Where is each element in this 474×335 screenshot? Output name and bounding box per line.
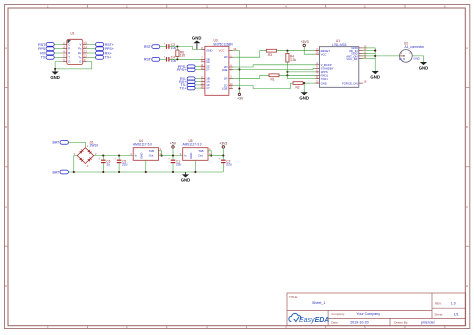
svg-text:TX+: TX+ — [105, 56, 112, 60]
junction C6 top — [102, 155, 104, 157]
svg-text:A: A — [466, 46, 468, 50]
svg-text:AMS1117-5.0: AMS1117-5.0 — [133, 142, 152, 146]
module left pin numbers — [316, 47, 319, 83]
wire U1 left GND — [55, 62, 63, 69]
junction C1/+5V — [172, 155, 174, 157]
svg-text:BAT: BAT — [52, 141, 60, 145]
ground below antenna rail — [370, 71, 380, 79]
svg-text:VCC: VCC — [219, 48, 225, 52]
wire C4 to U3 — [170, 58, 201, 60]
netflag PPS+ — [96, 47, 114, 51]
svg-text:GND: GND — [50, 75, 60, 80]
svg-text:B: B — [466, 125, 468, 129]
netflag TX — [41, 56, 54, 60]
junction RESET/R4 — [286, 50, 288, 52]
wire rail to antenna connector — [375, 55, 399, 57]
ground under U1 — [50, 69, 60, 80]
U3 right pins — [229, 50, 233, 88]
svg-text:2019-10-20: 2019-10-20 — [350, 321, 368, 325]
border row ticks right — [465, 46, 470, 288]
netflag RST — [38, 43, 54, 47]
wire RST2 to C4 — [160, 58, 166, 60]
wire U4 out to U5 — [159, 155, 183, 157]
svg-text:GND: GND — [321, 81, 327, 85]
svg-text:R1: R1 — [271, 78, 275, 82]
svg-text:PPS+: PPS+ — [177, 68, 186, 72]
svg-text:1.0: 1.0 — [451, 302, 456, 306]
svg-text:1R: 1R — [224, 76, 228, 80]
junction C2 — [222, 155, 224, 157]
wires PPS/RX/TX flags to U3 — [196, 67, 201, 89]
svg-text:GND: GND — [181, 178, 191, 183]
regulator U5 — [180, 139, 211, 160]
svg-text:TITLE:: TITLE: — [289, 295, 298, 299]
svg-text:AMS1117-3.3: AMS1117-3.3 — [183, 142, 202, 146]
svg-text:VCC_RF: VCC_RF — [346, 57, 357, 61]
module right pin names — [342, 46, 358, 85]
svg-text:1u: 1u — [106, 163, 110, 167]
netflag RST (row2) — [144, 58, 160, 62]
wire U3 pin1 to R3 — [233, 51, 267, 58]
svg-text:+5V: +5V — [170, 142, 177, 146]
netflag RST+ — [96, 43, 114, 47]
svg-text:22u: 22u — [122, 163, 128, 167]
svg-text:G: G — [79, 60, 81, 64]
svg-text:pmercier: pmercier — [421, 321, 436, 325]
svg-text:+3V3: +3V3 — [219, 142, 227, 146]
junction rail/STANDBY — [238, 68, 240, 70]
module left pin names — [321, 49, 334, 85]
svg-text:Drawn By:: Drawn By: — [394, 321, 408, 325]
U3 right pin names — [222, 55, 228, 90]
svg-text:Date:: Date: — [331, 321, 338, 325]
netflag RX+ — [179, 80, 195, 84]
netflag RST (row1) — [144, 45, 160, 49]
netflag RX- — [180, 77, 195, 81]
border column ticks top — [47, 5, 446, 9]
resistor R1 — [269, 74, 279, 82]
wire TXD1 row — [287, 78, 315, 80]
wire U5 out to +3V3 — [208, 155, 223, 157]
U1 pin numbers — [63, 41, 87, 62]
border column ticks bottom — [47, 325, 446, 329]
U4 TAB tie — [159, 151, 162, 156]
U1 left pins — [63, 44, 67, 61]
U5 TAB tie — [208, 151, 211, 156]
wire V_BCKP row — [233, 65, 316, 67]
resistor R6 — [176, 47, 186, 60]
IC U3 body — [205, 39, 234, 96]
wire R1 to RXD1 — [279, 74, 315, 76]
svg-text:SN75C1168N: SN75C1168N — [213, 42, 233, 46]
company row — [331, 312, 380, 316]
wire STANDBY row — [233, 68, 316, 69]
wire RST1 to C3 — [160, 46, 166, 48]
junction 1PPS — [286, 71, 288, 73]
svg-text:10u: 10u — [171, 59, 177, 63]
svg-text:VCC: VCC — [321, 52, 327, 56]
svg-text:R2: R2 — [296, 85, 300, 89]
ground on rail — [181, 172, 191, 183]
svg-text:GND: GND — [189, 153, 193, 159]
svg-text:Out: Out — [198, 154, 203, 158]
power flag +5V — [170, 142, 177, 156]
svg-text:R3: R3 — [268, 53, 272, 57]
wire bridge output to U4 — [94, 155, 134, 157]
capacitor C1 — [168, 156, 181, 172]
svg-text:EasyEDA: EasyEDA — [299, 317, 329, 324]
svg-text:A: A — [5, 46, 7, 50]
border row ticks left — [5, 46, 9, 288]
svg-text:GND: GND — [419, 65, 429, 70]
svg-text:1Y: 1Y — [206, 86, 210, 90]
netflag BAT- — [52, 170, 68, 174]
netflag RX — [40, 51, 54, 55]
svg-text:B: B — [5, 125, 7, 129]
svg-text:TX+: TX+ — [179, 86, 186, 90]
power flag +3V3 — [219, 142, 227, 156]
junction — [54, 68, 56, 70]
svg-text:GND: GND — [192, 36, 202, 41]
ground flag above U3 GND pin (inverted) — [192, 36, 202, 50]
svg-text:2Y: 2Y — [206, 68, 210, 72]
svg-text:ZW10: ZW10 — [90, 144, 99, 148]
netflag PPS — [38, 47, 54, 51]
svg-text:Company:: Company: — [331, 312, 345, 316]
U1 left pin names — [68, 42, 70, 63]
svg-text:TX: TX — [41, 56, 46, 60]
wire R2 to GND pin — [303, 82, 315, 84]
wires U1 left — [54, 44, 63, 57]
svg-text:+3V: +3V — [237, 96, 244, 100]
module body — [319, 39, 358, 87]
module right pin numbers — [363, 44, 366, 83]
resistor R2 — [293, 82, 303, 90]
junction C3/R6 — [176, 45, 178, 47]
rail junctions — [73, 171, 197, 173]
junction rail/row88 — [238, 87, 240, 89]
netflag BAT+ — [52, 141, 68, 145]
svg-text:3.3k: 3.3k — [290, 58, 296, 62]
svg-text:GND: GND — [140, 153, 144, 159]
svg-text:GND: GND — [413, 56, 419, 60]
svg-text:U1: U1 — [71, 32, 75, 36]
title text — [289, 295, 325, 305]
U3 right pin numbers — [230, 47, 237, 89]
bridge rectifier D1 — [74, 140, 99, 168]
svg-text:TXD1: TXD1 — [321, 77, 329, 81]
svg-text:TAB: TAB — [149, 149, 154, 153]
svg-text:22u: 22u — [226, 163, 232, 167]
U3 left pins — [201, 49, 205, 88]
wire U3 low row to R2 — [233, 83, 293, 88]
sheet cell — [435, 313, 459, 317]
ground at antenna — [419, 62, 429, 70]
date row — [331, 321, 435, 325]
wire down to GND flag — [303, 83, 305, 91]
svg-text:BAT: BAT — [52, 170, 60, 174]
IC U1 body — [67, 32, 83, 65]
wire antenna to ground — [412, 56, 423, 62]
wire BAT+ to bridge — [68, 142, 85, 147]
svg-text:FORCE_ON: FORCE_ON — [342, 81, 358, 85]
wire R3 to RESET — [277, 50, 316, 52]
svg-text:GND: GND — [299, 96, 309, 101]
svg-text:IN_N: IN_N — [399, 57, 405, 61]
capacitor C2 — [219, 156, 232, 172]
svg-text:Sheet_1: Sheet_1 — [312, 301, 325, 305]
U4 GND pin to rail — [145, 160, 147, 172]
svg-text:TAB: TAB — [198, 149, 203, 153]
ground rail — [68, 171, 223, 173]
svg-text:Your Company: Your Company — [356, 312, 380, 316]
power flag +3V — [237, 93, 244, 100]
resistor R3 — [267, 49, 277, 57]
U1 right pins — [83, 44, 87, 61]
svg-text:2R: 2R — [224, 55, 228, 59]
module right pins — [359, 48, 363, 83]
wire 1PPS row — [287, 71, 315, 73]
svg-text:G: G — [68, 60, 70, 64]
rev cell — [435, 302, 456, 306]
capacitor C6 — [99, 156, 111, 172]
wire C3 to GND pin — [170, 47, 201, 50]
netflag TX+ — [179, 86, 195, 90]
netflag TX+ — [96, 56, 112, 60]
module left pins — [315, 51, 319, 83]
svg-text:22u: 22u — [176, 163, 182, 167]
antenna connector U2 — [399, 41, 425, 62]
svg-text:RST: RST — [144, 58, 152, 62]
netflag TX- — [180, 83, 195, 87]
regulator U4 — [130, 139, 161, 160]
svg-text:GND: GND — [206, 48, 212, 52]
svg-text:GND: GND — [370, 74, 380, 79]
capacitor C3 — [164, 43, 177, 51]
netflag PPS- — [178, 65, 195, 69]
svg-text:A1_connector: A1_connector — [405, 45, 426, 49]
svg-text:Out: Out — [149, 154, 154, 158]
EasyEDA logo — [289, 313, 329, 323]
U1 right pin names — [78, 42, 82, 63]
svg-text:2A: 2A — [206, 60, 210, 64]
svg-text:120: 120 — [180, 54, 186, 58]
+3V rail from U3 VCC — [233, 50, 240, 93]
svg-text:L76L-M33: L76L-M33 — [332, 43, 347, 47]
netflag RX+ — [96, 51, 112, 55]
svg-text:Sheet:: Sheet: — [435, 313, 444, 317]
wires module right to rail — [363, 48, 375, 71]
U3 left pin names — [206, 57, 210, 90]
wire bridge left leg — [74, 156, 77, 172]
wire U3 to R1 — [233, 75, 269, 78]
capacitor C4 — [164, 55, 177, 63]
U5 GND pin to rail — [194, 160, 196, 172]
junctions on antenna rail — [374, 50, 376, 52]
svg-text:1DE: 1DE — [222, 87, 228, 91]
netflag PPS+ — [177, 68, 195, 72]
power flag +3V3 at VCC — [301, 40, 316, 54]
svg-text:+3V3: +3V3 — [301, 40, 309, 44]
wire U1 right GND loop — [55, 62, 92, 69]
svg-text:2DE: 2DE — [222, 68, 228, 72]
capacitor C5 — [114, 156, 127, 172]
wires U1 right — [87, 44, 96, 57]
junction GND row — [303, 82, 305, 84]
svg-text:1/1: 1/1 — [454, 313, 459, 317]
U3 left pin numbers — [201, 46, 204, 89]
svg-text:RST: RST — [144, 45, 152, 49]
junction C4/R6 — [176, 58, 178, 60]
junction C5 top — [118, 155, 120, 157]
resistor R4 vertical with rail — [286, 51, 297, 79]
junction RXD1 — [286, 74, 288, 76]
ground below module — [299, 91, 309, 100]
svg-text:REV:: REV: — [435, 302, 442, 306]
